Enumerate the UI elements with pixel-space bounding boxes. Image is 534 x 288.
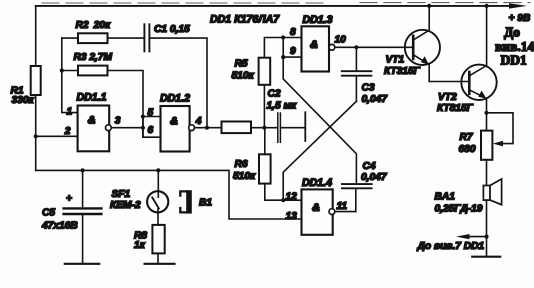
svg-text:8: 8 (290, 27, 296, 38)
svg-text:КЕМ-2: КЕМ-2 (110, 200, 141, 211)
ground BA1 (472, 256, 500, 258)
svg-text:0,047: 0,047 (361, 172, 388, 183)
speaker BA1 (483, 179, 501, 257)
junction C3 tap (354, 45, 358, 49)
junction R3 left (60, 68, 64, 72)
svg-text:R2 20к: R2 20к (76, 20, 111, 31)
svg-text:12: 12 (286, 191, 298, 202)
resistor R7 variable (481, 113, 513, 186)
gate DD1.1 (78, 106, 112, 152)
junction output tap (484, 235, 488, 239)
junction bus SF1 (156, 168, 160, 172)
microphone B1 (180, 190, 192, 213)
transistor VT1 (405, 6, 470, 82)
svg-text:SF1: SF1 (112, 189, 131, 200)
capacitor C3 (342, 47, 372, 101)
svg-text:&: & (310, 39, 318, 51)
svg-text:4: 4 (195, 116, 202, 127)
arrowhead +9V rail (509, 3, 527, 8)
svg-text:R7: R7 (460, 132, 474, 143)
svg-text:КТ315Г: КТ315Г (384, 66, 421, 77)
svg-text:R5: R5 (235, 59, 248, 70)
svg-text:1: 1 (67, 106, 73, 117)
wire vertical feedback R2/R3 to pin 1 (62, 38, 78, 113)
svg-text:DD1.2: DD1.2 (160, 92, 190, 104)
resistor R3 (62, 66, 143, 138)
svg-text:КТ815Г: КТ815Г (437, 103, 474, 114)
node pins 8-9 tie (281, 35, 301, 59)
junction bus C5 (81, 168, 85, 172)
wire to pin 7 arrow (464, 236, 487, 238)
svg-text:&: & (312, 202, 320, 214)
svg-text:DD1.1: DD1.1 (77, 92, 107, 104)
svg-text:2: 2 (64, 126, 71, 137)
svg-text:До: До (504, 25, 520, 40)
wire output 4 (195, 127, 222, 129)
junction R1/pin2 (34, 134, 38, 138)
wire output 10 to VT1 base (335, 46, 413, 48)
gate DD1.2 (161, 106, 195, 152)
svg-text:R6: R6 (235, 159, 248, 170)
capacitor C2 (278, 112, 306, 142)
svg-text:1к: 1к (134, 240, 146, 251)
wire output 11 to C4 (335, 211, 356, 213)
junction R5/R6 node (262, 126, 266, 130)
svg-text:1,5 мк: 1,5 мк (267, 100, 298, 111)
svg-text:10: 10 (335, 34, 347, 45)
svg-text:C1 0,15: C1 0,15 (154, 24, 190, 35)
svg-text:DD1.3: DD1.3 (303, 14, 333, 26)
gate DD1.4 (302, 189, 335, 234)
svg-text:510к: 510к (233, 171, 256, 182)
wire cross diagonal from C3 to pin 12 (283, 101, 356, 200)
svg-text:330к: 330к (12, 95, 35, 106)
resistor R6 (259, 128, 302, 201)
svg-text:9: 9 (290, 46, 296, 57)
arrowhead pin 7 (456, 234, 470, 239)
svg-text:B1: B1 (199, 197, 212, 208)
junction VT1 collector rail (427, 4, 431, 8)
wire +9V top rail (36, 5, 512, 7)
wire output 3 to DD1.2 inputs (111, 127, 142, 129)
junction C1 drop (205, 126, 209, 130)
node pins 5-6 tie (141, 114, 161, 137)
capacitor C1 (144, 24, 207, 127)
svg-text:DD1.4: DD1.4 (302, 177, 332, 189)
scan noise streak top (42, 2, 530, 4)
svg-text:5: 5 (148, 108, 154, 119)
switch SF1 reed (147, 170, 168, 225)
svg-text:C4: C4 (363, 161, 376, 172)
svg-text:510к: 510к (232, 71, 255, 82)
svg-text:11: 11 (337, 201, 348, 212)
svg-text:C2: C2 (268, 89, 281, 100)
wire left drop from rail to R1 (35, 6, 37, 66)
svg-text:BA1: BA1 (435, 192, 456, 203)
wire R4 to C2 (251, 127, 277, 129)
resistor R2 (62, 33, 145, 43)
junction R7 wiper (484, 111, 488, 115)
svg-text:+ 9В: + 9В (509, 13, 531, 24)
wire common bus (36, 170, 302, 219)
svg-text:R3 2,7М: R3 2,7М (74, 52, 113, 63)
svg-text:До вив.7 DD1: До вив.7 DD1 (417, 241, 485, 252)
junction VT2 collector rail (485, 4, 489, 8)
svg-text:0,047: 0,047 (362, 94, 389, 105)
resistor R5 (259, 38, 302, 128)
svg-text:VT1: VT1 (386, 55, 405, 66)
svg-text:VT2: VT2 (438, 92, 457, 103)
junction pin 12 node (281, 198, 285, 202)
svg-text:DD1: DD1 (501, 53, 527, 68)
svg-text:&: & (170, 115, 178, 127)
wire to pin 2 DD1.1 (36, 135, 78, 137)
wire cross diagonal from pins 8-9 to C4 (283, 57, 356, 183)
transistor VT2 (461, 6, 496, 131)
svg-text:C3: C3 (362, 83, 375, 94)
svg-text:+: + (66, 194, 72, 205)
ground C5 (65, 263, 99, 265)
capacitor C4 (342, 184, 372, 212)
svg-text:6: 6 (148, 125, 154, 136)
gate DD1.3 (302, 26, 335, 71)
svg-text:C5: C5 (42, 208, 55, 219)
capacitor C5 electrolytic (64, 170, 102, 263)
ground R8 (145, 263, 175, 265)
resistor R1 (31, 66, 41, 95)
svg-text:680: 680 (459, 144, 476, 155)
svg-text:47х16В: 47х16В (41, 221, 78, 232)
svg-text:0,25ГД-19: 0,25ГД-19 (435, 203, 483, 214)
svg-text:13: 13 (286, 211, 298, 222)
wire R1 bottom to bus (35, 95, 37, 170)
svg-text:3: 3 (115, 116, 121, 127)
resistor R8 (152, 225, 164, 264)
resistor R4 unlabeled (222, 122, 252, 134)
svg-text:&: & (88, 115, 96, 127)
svg-text:DD1 К176ЛА7: DD1 К176ЛА7 (210, 14, 280, 26)
